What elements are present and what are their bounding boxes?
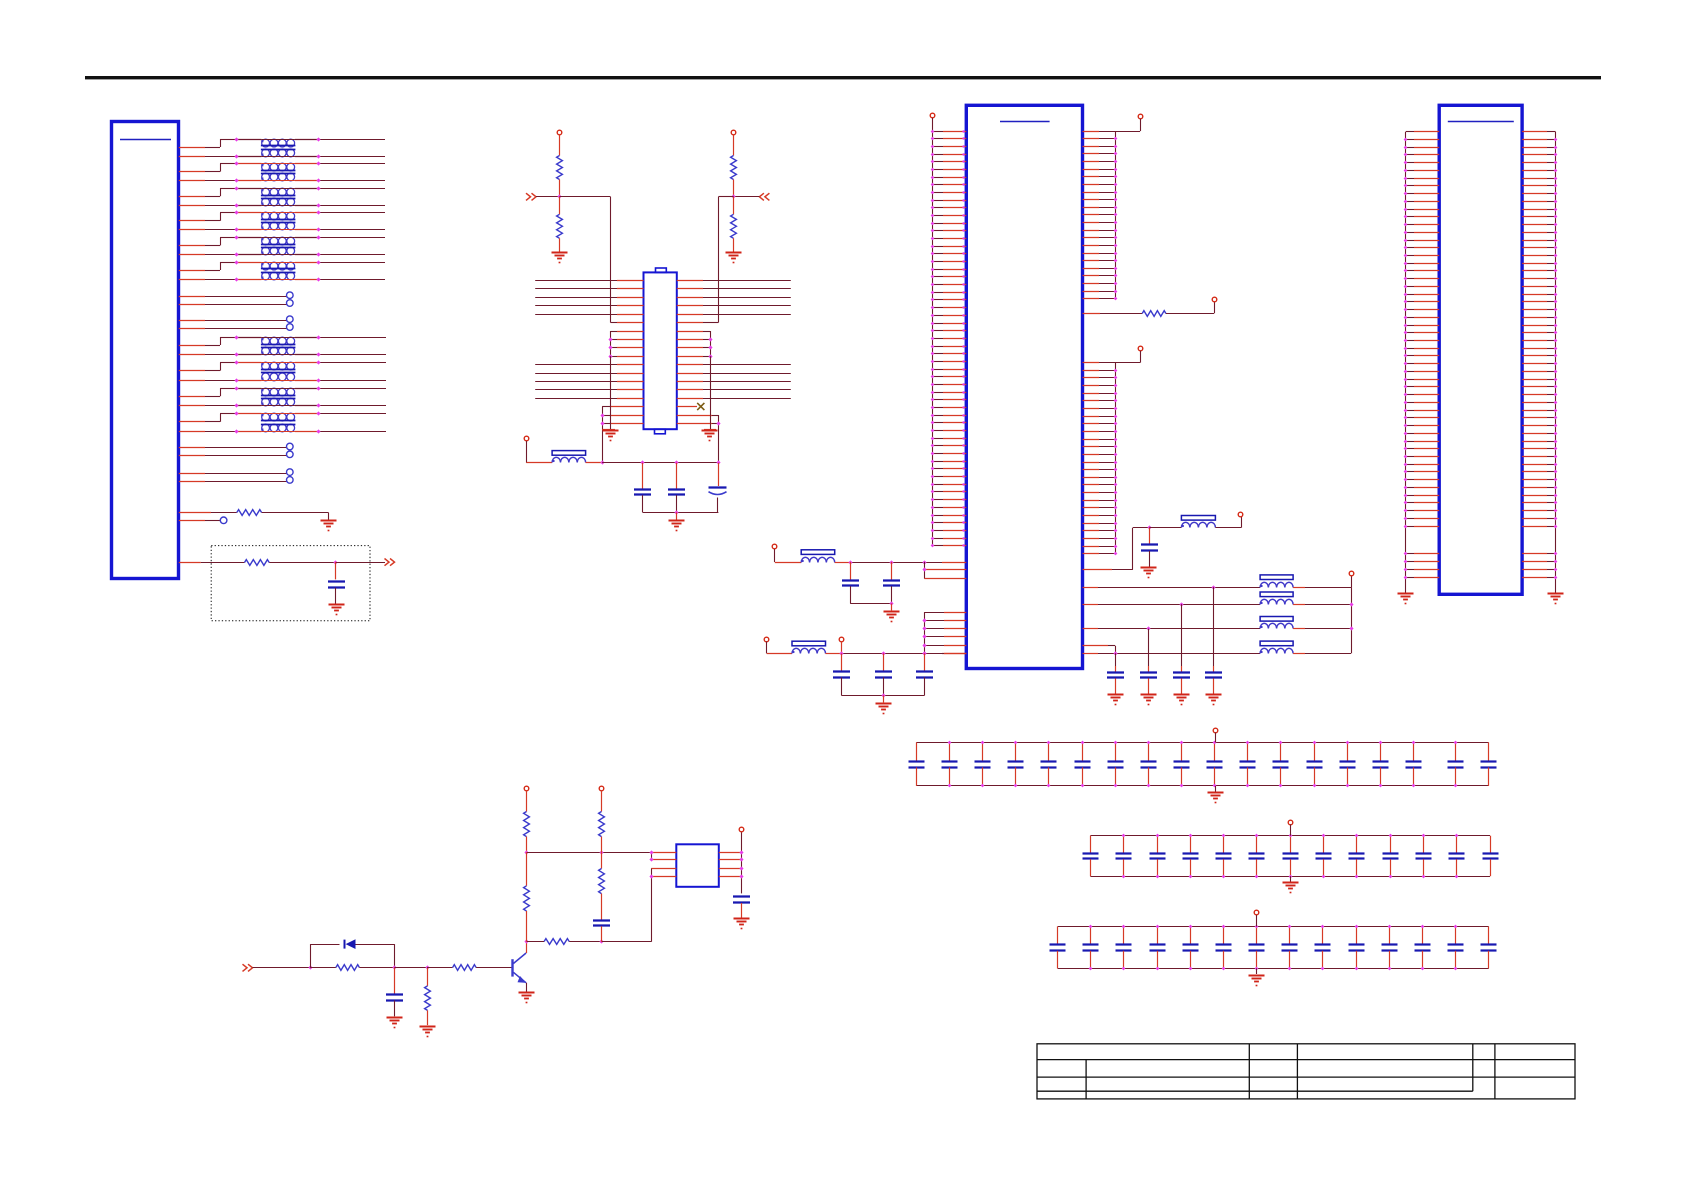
wire C16 to node H5 xyxy=(601,926,603,942)
capacitor C7 xyxy=(891,562,893,581)
capacitor CB1_13 xyxy=(1314,742,1316,761)
bus wire L4 (right) xyxy=(677,305,703,307)
transformer T5 xyxy=(262,237,270,245)
capacitor CB1_17 xyxy=(1455,742,1457,761)
wire C17 to ground xyxy=(741,903,743,918)
tied power pins (J2 left) xyxy=(924,562,926,579)
bus wire L5 (right) xyxy=(677,314,703,316)
wire to ground (caps) xyxy=(676,512,678,519)
J3 right bus xyxy=(1555,132,1557,593)
ground (R9) xyxy=(420,1026,436,1028)
capacitor C17 xyxy=(733,895,750,897)
open terminal pair P4 xyxy=(179,473,205,475)
bus wire M1 (right) xyxy=(677,364,703,366)
capacitor CB2_2 xyxy=(1123,836,1125,853)
transformer T7 xyxy=(262,337,270,345)
junction dot (right bottom) xyxy=(716,421,720,425)
J3 right pins xyxy=(1522,131,1547,133)
rail wire xyxy=(527,852,602,854)
wire VT1 to R3 xyxy=(559,135,561,156)
wire T2 primary (jog) xyxy=(179,171,205,173)
open terminal pair P3 xyxy=(179,447,205,449)
wire VT10 to bead FB4 xyxy=(766,641,768,653)
capacitor C6 xyxy=(850,562,852,581)
ground (C14) xyxy=(1108,694,1124,696)
capacitor C5 xyxy=(1149,528,1151,545)
ferrite bead FB3 xyxy=(801,550,835,555)
ground (C11) xyxy=(1206,694,1222,696)
tied pin bus (left mid) xyxy=(610,331,612,356)
wire T3 primary (jog) xyxy=(179,196,205,198)
wire R15 to C16 xyxy=(601,894,603,920)
node C3 xyxy=(674,460,678,464)
ground (C15) xyxy=(387,1017,403,1019)
resistor R1 (to ground) xyxy=(179,512,211,514)
cap bank 3 top rail xyxy=(1058,926,1489,928)
ferrite bead FB4 xyxy=(792,641,826,646)
node H6 xyxy=(524,850,528,854)
resistor R15 xyxy=(601,852,603,868)
wire T6 secondary xyxy=(179,279,205,281)
capacitor C16 xyxy=(593,919,610,921)
cap bank 2 bottom rail xyxy=(1090,876,1490,878)
connector J1 (left) xyxy=(112,122,179,579)
capacitor CB2_4 xyxy=(1190,836,1192,853)
node G1 xyxy=(1211,585,1215,589)
wire to RC filter xyxy=(179,562,201,564)
cap bank 1 bottom rail xyxy=(916,785,1488,787)
resistor R8 xyxy=(310,967,336,969)
connector J3 (right) xyxy=(1439,105,1522,594)
capacitor CB1_15 xyxy=(1380,742,1382,761)
terminal VT10 xyxy=(764,637,769,642)
ground (J3 right) xyxy=(1548,593,1564,595)
junction dots T3 xyxy=(234,186,238,190)
wire R3 to node A xyxy=(559,180,561,197)
capacitor CB3_14 xyxy=(1488,927,1490,945)
capacitor C10 xyxy=(924,653,926,671)
node (RC out) xyxy=(333,560,337,564)
wire FB3 to J2 xyxy=(835,562,851,564)
node H7 xyxy=(599,850,603,854)
cap bank 1 top rail xyxy=(916,742,1488,744)
terminal VT14 xyxy=(599,786,604,791)
capacitor CB1_3 xyxy=(982,742,984,761)
node E2 xyxy=(889,560,893,564)
wire R2 to node xyxy=(269,562,336,564)
terminal VT7 xyxy=(1138,346,1143,351)
wire T8 secondary xyxy=(179,380,205,382)
bus wire L2 (right) xyxy=(677,288,703,290)
node C5 xyxy=(674,510,678,514)
J2 right bus 1 xyxy=(1115,131,1117,299)
terminal VT4 (J2 left bus) xyxy=(930,113,935,118)
capacitor C8 xyxy=(841,653,843,671)
cap bank 2 top rail xyxy=(1090,835,1490,837)
capacitor CB3_9 xyxy=(1322,927,1324,945)
wire J2 to bead FB6 xyxy=(1083,604,1099,606)
resistor R2 xyxy=(245,560,270,566)
node F2 xyxy=(881,651,885,655)
capacitor C9 xyxy=(883,653,885,671)
IC U1 top tab xyxy=(656,268,667,272)
bus wire M2 (left) xyxy=(535,373,617,375)
junction dots T1 xyxy=(234,137,238,141)
dashed enclosure (RC filter) xyxy=(211,546,370,621)
wire VT5 to bus R1 xyxy=(1140,119,1142,131)
resistor R13 (collector load) xyxy=(526,852,528,886)
wire VT14 to R14 xyxy=(601,790,603,811)
off-page arrow in (right) xyxy=(759,193,769,200)
ground (J3 left) xyxy=(1398,593,1414,595)
wire FB7 to bus xyxy=(1293,628,1305,630)
junction dots (left bottom) xyxy=(600,413,604,417)
ground tee (IC left) xyxy=(610,356,612,429)
tied pin bus (right mid) xyxy=(710,331,712,356)
bus wire M5 (left) xyxy=(535,398,617,400)
capacitor CB3_10 xyxy=(1356,927,1358,945)
wire FB2 to terminal xyxy=(1215,527,1241,529)
cap bank 1 terminal xyxy=(1213,728,1218,733)
wire node H5 to U2 xyxy=(602,941,652,943)
node E5 xyxy=(889,601,893,605)
junction dots T6 xyxy=(234,260,238,264)
ground tee (IC right) xyxy=(710,356,712,429)
capacitor C14 xyxy=(1115,653,1117,666)
capacitor C12 xyxy=(1181,604,1183,666)
cap bank 2 ground xyxy=(1290,876,1292,882)
wire T3 secondary xyxy=(179,205,205,207)
bus wire M3 (right) xyxy=(677,381,703,383)
capacitor C11 xyxy=(1213,587,1215,666)
bus wire M3 (left) xyxy=(535,381,617,383)
node H3 xyxy=(425,965,429,969)
wire R7 to terminal xyxy=(1166,313,1214,315)
J2 left bus xyxy=(932,118,934,546)
transistor Q1 (NPN) xyxy=(511,959,513,976)
terminal VT6 xyxy=(1212,297,1217,302)
capacitor C3 xyxy=(676,463,678,489)
transformer T1 xyxy=(262,139,270,147)
resistor R5 (pullup) xyxy=(731,156,737,180)
J2 left pins xyxy=(933,131,943,133)
capacitor CB3_8 xyxy=(1289,927,1291,945)
node G6 xyxy=(1349,626,1353,630)
wire C1 to ground xyxy=(335,588,337,604)
capacitor CB2_10 xyxy=(1390,836,1392,853)
capacitor CB3_5 xyxy=(1190,927,1192,945)
bus wire M5 (right) xyxy=(677,398,703,400)
wire node B to IC (via vertical) xyxy=(718,196,733,198)
resistor R3 (pullup) xyxy=(557,156,563,180)
node C2 xyxy=(640,460,644,464)
ground (IC left) xyxy=(603,430,619,432)
resistor R11 xyxy=(544,939,569,945)
capacitor CB3_13 xyxy=(1455,927,1457,945)
node F3 xyxy=(922,651,926,655)
wire T1 secondary xyxy=(179,156,205,158)
ground (C17) xyxy=(734,918,750,920)
capacitor C4 (polarized) xyxy=(718,463,720,486)
wire FB4 to J2 xyxy=(826,653,842,655)
node D xyxy=(1147,525,1151,529)
tied pin bus (left bottom, to L-filter) xyxy=(602,407,604,463)
terminal VT13 xyxy=(524,786,529,791)
wire R5 to node B xyxy=(733,180,735,197)
bus wire L3 (left) xyxy=(535,297,617,299)
node H2 xyxy=(392,965,396,969)
open terminal pair P2 xyxy=(179,320,205,322)
bead output bus xyxy=(1351,587,1353,653)
cap bank 1 ground xyxy=(1215,786,1217,792)
capacitor CB1_1 xyxy=(916,742,918,761)
capacitor CB1_10 xyxy=(1214,742,1216,761)
node G5 xyxy=(1349,602,1353,606)
ferrite bead FB8 xyxy=(1260,641,1293,646)
node H5 xyxy=(599,939,603,943)
junction dots T9 xyxy=(234,386,238,390)
ferrite bead FB6 xyxy=(1260,592,1293,597)
capacitor CB1_9 xyxy=(1181,742,1183,761)
connector J1 name line xyxy=(120,139,171,141)
capacitor CB1_14 xyxy=(1347,742,1349,761)
capacitor CB3_3 xyxy=(1123,927,1125,945)
cap bank 3 bottom rail xyxy=(1058,968,1489,970)
bus wire L3 (right) xyxy=(677,297,703,299)
capacitor CB3_4 xyxy=(1157,927,1159,945)
ground (Q1) xyxy=(519,992,535,994)
wire T10 primary (jog) xyxy=(179,421,205,423)
capacitor CB2_9 xyxy=(1356,836,1358,853)
wire bus to terminal VT12 xyxy=(1351,576,1353,588)
node A xyxy=(557,194,561,198)
bus wire L2 (left) xyxy=(535,288,617,290)
wire VT11 to node F1 xyxy=(841,641,843,653)
capacitor CB2_5 xyxy=(1223,836,1225,853)
wire J2 to bead FB7 xyxy=(1083,628,1099,630)
cap bank 1 junction dots xyxy=(948,741,952,745)
transformer T6 xyxy=(262,262,270,270)
capacitor CB1_5 xyxy=(1048,742,1050,761)
wire T4 secondary xyxy=(179,229,205,231)
open terminal P5 xyxy=(179,520,205,522)
transformer T8 xyxy=(262,362,270,370)
ferrite bead FB2 xyxy=(1181,516,1215,521)
capacitor CB1_8 xyxy=(1148,742,1150,761)
transformer T3 xyxy=(262,188,270,196)
wire R12 to rail xyxy=(526,837,528,853)
bus wire L5 (left) xyxy=(535,314,617,316)
capacitor C1 xyxy=(328,580,345,582)
node F4 xyxy=(881,693,885,697)
bus wire L1 (right) xyxy=(677,280,703,282)
capacitor CB3_12 xyxy=(1422,927,1424,945)
wire J2 to bead FB5 xyxy=(1083,587,1099,589)
capacitor CB1_18 xyxy=(1488,742,1490,761)
U2 left pins xyxy=(651,852,676,854)
wire T5 secondary xyxy=(179,254,205,256)
no-connect X pin xyxy=(677,406,697,408)
U2 right bus xyxy=(741,832,743,893)
wire to ground (C6,C7) xyxy=(891,603,893,610)
capacitor CB1_11 xyxy=(1247,742,1249,761)
J2 left pin dots xyxy=(931,130,935,134)
node C xyxy=(600,460,604,464)
J3 right pin dots xyxy=(1554,138,1558,142)
wire T5 primary (jog) xyxy=(179,245,205,247)
wire T9 primary (jog) xyxy=(179,396,205,398)
J2 right bus 2 xyxy=(1115,363,1117,554)
wire T1 primary (jog) xyxy=(179,147,205,149)
capacitor CB3_1 xyxy=(1057,927,1059,945)
J2 right pin dots group 2 xyxy=(1114,369,1118,373)
off-page arrow in (signal) xyxy=(243,964,253,971)
wire FB6 to bus xyxy=(1293,604,1305,606)
tied power pin bus (J2 lower left) xyxy=(924,612,926,653)
capacitor CB1_2 xyxy=(949,742,951,761)
wire FB8 to bus xyxy=(1293,653,1305,655)
J2 right pins group 1 xyxy=(1083,131,1100,133)
wire VT3 to bead FB1 xyxy=(526,441,528,463)
terminal VT5 xyxy=(1138,114,1143,119)
J3 left bus xyxy=(1405,132,1407,593)
capacitor CB2_11 xyxy=(1423,836,1425,853)
terminal VT9 xyxy=(772,544,777,549)
wire T7 primary (jog) xyxy=(179,345,205,347)
ground (C12) xyxy=(1174,694,1190,696)
ground (caps) xyxy=(669,520,685,522)
capacitor CB1_16 xyxy=(1413,742,1415,761)
wire node to C1 xyxy=(335,562,337,579)
wire R14 to rail xyxy=(601,837,603,853)
wire to ground (C8-C10) xyxy=(883,695,885,702)
wire J2 to bead FB8 xyxy=(1083,653,1099,655)
capacitor CB1_12 xyxy=(1280,742,1282,761)
capacitor CB2_8 xyxy=(1323,836,1325,853)
transformer T2 xyxy=(262,163,270,171)
junction dots T7 xyxy=(234,335,238,339)
bus wire M2 (right) xyxy=(677,373,703,375)
U2 right pin dots xyxy=(739,850,743,854)
terminal VT1 xyxy=(557,130,562,135)
bus wire L1 (left) xyxy=(535,280,617,282)
node E4 xyxy=(922,567,926,571)
U2 left pin ties xyxy=(651,852,653,860)
J2 right pins group 2 xyxy=(1083,362,1100,364)
terminal VT15 xyxy=(739,827,744,832)
wire VT7 to bus R2 xyxy=(1140,351,1142,363)
capacitor C15 xyxy=(394,968,396,994)
node E1 xyxy=(848,560,852,564)
resistor R12 xyxy=(524,812,530,837)
IC U1 (delay line) xyxy=(644,272,677,429)
junction dots T5 xyxy=(234,235,238,239)
node G3 xyxy=(1146,626,1150,630)
cap return (C6,C7) xyxy=(850,603,892,605)
ground (C8-C10) xyxy=(876,703,892,705)
junction dots T4 xyxy=(234,210,238,214)
capacitor CB2_3 xyxy=(1157,836,1159,853)
node E3 xyxy=(922,560,926,564)
wire VT9 to bead FB3 xyxy=(774,549,776,562)
IC U2 xyxy=(676,844,719,887)
J3 left pins xyxy=(1406,131,1414,133)
bus wire M4 (right) xyxy=(677,389,703,391)
bus wire M4 (left) xyxy=(535,389,617,391)
capacitor CB2_13 xyxy=(1490,836,1492,853)
node H9 xyxy=(649,857,653,861)
wire J2 power pin (up) xyxy=(1083,569,1113,571)
bus wire L4 (left) xyxy=(535,305,617,307)
wire J2 pin to R7 xyxy=(1083,313,1101,315)
cap return bus xyxy=(643,512,719,514)
wire Q1 collector xyxy=(526,942,528,953)
capacitor CB2_7 xyxy=(1290,836,1292,853)
wire T8 primary (jog) xyxy=(179,370,205,372)
connector J2 name line xyxy=(1000,121,1050,123)
tied pin bus (right bottom) xyxy=(718,415,720,463)
wire node to off-page xyxy=(336,562,385,564)
node G2 xyxy=(1179,602,1183,606)
resistor R10 (base) xyxy=(427,967,453,969)
wire T7 secondary xyxy=(179,354,205,356)
junction dots (right mid) xyxy=(708,337,712,341)
resistor R4 (pulldown) xyxy=(559,197,561,215)
supply wire under IC xyxy=(602,462,718,464)
wire Q1 emitter to ground xyxy=(526,983,528,992)
terminal VT8 xyxy=(1238,512,1243,517)
node G4 xyxy=(1113,651,1117,655)
wire T6 primary (jog) xyxy=(179,270,205,272)
wire FB1 to node C xyxy=(586,462,603,464)
ferrite bead FB1 xyxy=(552,451,586,456)
wire T4 primary (jog) xyxy=(179,220,205,222)
ferrite bead FB7 xyxy=(1260,617,1293,622)
capacitor C13 xyxy=(1148,629,1150,666)
diode D1 xyxy=(344,940,346,949)
ground (IC right) xyxy=(702,430,718,432)
diode wire to node H2 xyxy=(356,944,395,946)
bus wire M1 (left) xyxy=(535,364,617,366)
ground (R6) xyxy=(726,252,742,254)
junction dots T10 xyxy=(234,411,238,415)
terminal VT12 xyxy=(1349,571,1354,576)
transformer T9 xyxy=(262,388,270,396)
IC U1 bottom tab xyxy=(655,429,666,434)
wire node A to IC (via vertical) xyxy=(559,196,610,198)
wire arrow to node H1 xyxy=(253,967,311,969)
cap bank 2 junction dots xyxy=(1122,834,1126,838)
capacitor C2 xyxy=(642,463,644,489)
ground (C1) xyxy=(329,604,345,606)
node H1 xyxy=(308,965,312,969)
open terminal pair P1 xyxy=(179,296,205,298)
extra tied pin (J2 right bottom) xyxy=(1083,645,1109,647)
wire arrow to node B xyxy=(734,196,760,198)
capacitor CB3_2 xyxy=(1090,927,1092,945)
wire T9 secondary xyxy=(179,405,205,407)
ground (C13) xyxy=(1141,694,1157,696)
cap bank 2 terminal xyxy=(1288,820,1293,825)
connector J2 (center) xyxy=(966,105,1082,668)
node C4 xyxy=(716,460,720,464)
cap bank 3 ground xyxy=(1256,968,1258,974)
off-page arrow in (left) xyxy=(526,193,536,200)
IC pin wire L6 left (from node A) xyxy=(611,322,618,324)
wire VT13 to R12 xyxy=(526,790,528,811)
resistor R14 xyxy=(599,812,605,837)
ferrite bead FB5 xyxy=(1260,575,1293,580)
